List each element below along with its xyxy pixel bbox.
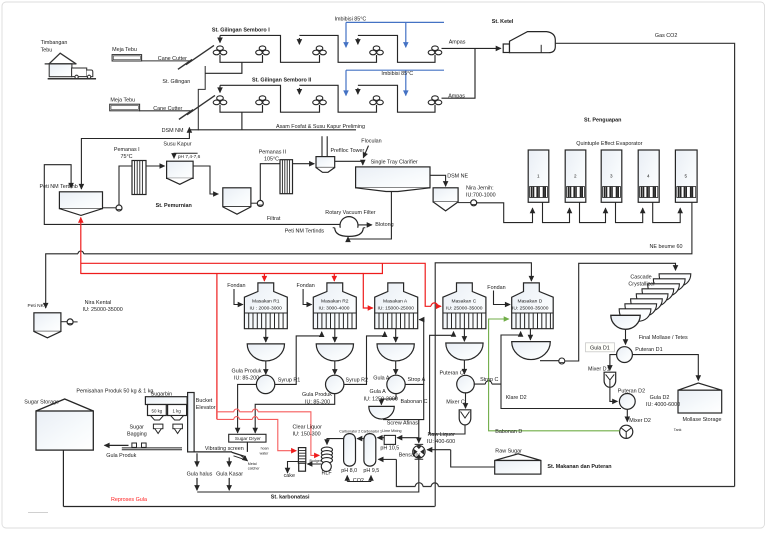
wire raw sugar to bensator xyxy=(427,450,495,467)
svg-text:Mollase Storage: Mollase Storage xyxy=(683,417,722,423)
vessel Preflloc Tower xyxy=(316,136,369,172)
svg-text:Sugarbin: Sugarbin xyxy=(151,391,173,397)
wire CO2 sparge xyxy=(347,476,371,482)
svg-text:Bucket: Bucket xyxy=(196,398,213,404)
mixer D2 icon xyxy=(620,425,633,438)
wire bagasse drop 2 train II xyxy=(357,88,359,94)
svg-text:Reproses Gula: Reproses Gula xyxy=(111,497,147,503)
svg-text:Gula Kasar: Gula Kasar xyxy=(216,472,243,478)
wire puteran D1 to mixer D1 xyxy=(610,355,617,371)
wire ampas train I to boiler xyxy=(442,47,501,49)
svg-text:3: 3 xyxy=(610,174,613,179)
evaporator 2 xyxy=(565,150,586,202)
svg-text:Masakan D: Masakan D xyxy=(518,298,543,304)
mill 2 train II xyxy=(256,96,270,105)
svg-text:RLF: RLF xyxy=(322,470,333,476)
svg-text:Klare D2: Klare D2 xyxy=(506,395,527,401)
svg-text:Susu Kapur: Susu Kapur xyxy=(163,142,191,148)
wire screw afinasi to bensator xyxy=(383,420,419,443)
tank pH defecation xyxy=(166,153,218,194)
svg-text:pH 8,0: pH 8,0 xyxy=(341,468,357,474)
svg-text:Peti NK: Peti NK xyxy=(28,303,45,309)
wire klare D2 and strop C up into masakan D xyxy=(501,332,621,409)
svg-text:75°C: 75°C xyxy=(121,154,133,160)
wire red feed to masakan C xyxy=(81,263,441,306)
puteran R1 xyxy=(256,375,274,393)
svg-text:catcher: catcher xyxy=(248,467,261,471)
wire bensator to lime mixing xyxy=(397,437,419,439)
svg-text:Puteran D2: Puteran D2 xyxy=(618,389,645,395)
wire clarifier to DSM NE xyxy=(430,175,446,186)
pump bensator xyxy=(413,444,425,459)
pump receiver D xyxy=(559,358,565,364)
svg-text:IU: 400-600: IU: 400-600 xyxy=(427,439,455,445)
svg-text:Tebu: Tebu xyxy=(41,47,53,53)
wire evap 3 to 4 xyxy=(616,202,643,222)
svg-text:4: 4 xyxy=(647,174,650,179)
svg-text:St. Penguapan: St. Penguapan xyxy=(584,117,621,123)
svg-text:Babonan C: Babonan C xyxy=(401,399,428,405)
wire filtrat return loop xyxy=(44,165,340,225)
wire pH tank to settler xyxy=(193,166,218,194)
funnel icon 2 xyxy=(173,424,183,433)
footer mark xyxy=(28,512,48,514)
box Gula D1 xyxy=(586,343,615,352)
svg-text:St. Gilingan Semboro II: St. Gilingan Semboro II xyxy=(252,77,312,83)
evaporator 4 xyxy=(638,150,659,202)
svg-text:St. Ketel: St. Ketel xyxy=(492,19,514,25)
svg-text:Single Tray Clarifier: Single Tray Clarifier xyxy=(371,159,418,165)
svg-text:Clear Liquor: Clear Liquor xyxy=(293,424,323,430)
svg-text:Lime Mixing: Lime Mixing xyxy=(382,429,401,433)
wire red riser from clear liquor xyxy=(216,274,218,420)
vessel Masakan A xyxy=(375,283,418,329)
vessel Masakan D xyxy=(512,283,554,329)
wire bagasse rail 1 train I xyxy=(220,35,320,62)
wire floculan arrow xyxy=(363,146,368,158)
svg-text:Masakan C: Masakan C xyxy=(452,298,477,304)
bucket elevator xyxy=(188,393,195,452)
svg-text:Gula Produk: Gula Produk xyxy=(302,392,332,398)
receiver C xyxy=(446,343,483,360)
wires syrup / strop / gula xyxy=(234,263,676,507)
pump nira jernih xyxy=(471,200,477,206)
svg-text:Carbonator 2: Carbonator 2 xyxy=(339,430,360,434)
svg-text:St. karbonatasi: St. karbonatasi xyxy=(271,494,310,500)
svg-text:IU: 25000-35000: IU: 25000-35000 xyxy=(512,306,549,312)
svg-text:Pemanas II: Pemanas II xyxy=(259,149,286,155)
vessel Masakan R1 xyxy=(244,283,287,329)
svg-text:Puteran C: Puteran C xyxy=(440,371,464,377)
wire bagasse drop train II xyxy=(298,88,300,94)
svg-text:Gula Produk: Gula Produk xyxy=(106,453,136,459)
wire puteran D1 to molase storage xyxy=(632,355,698,381)
pump peti NM tertimb xyxy=(103,207,117,209)
wire bagasse rail 3 train II xyxy=(358,85,435,112)
svg-text:Elevator: Elevator xyxy=(196,405,216,411)
wire DSM NM juice down to peti NM tertimb xyxy=(81,130,189,189)
mill 5 train II xyxy=(428,96,442,105)
svg-text:Preflloc Tower: Preflloc Tower xyxy=(331,148,365,154)
wire juice drain train II xyxy=(241,112,243,130)
wire meja tebu I to cutter xyxy=(142,60,189,62)
vibrating screen xyxy=(232,452,246,457)
tank Peti NM Tertimb xyxy=(59,192,122,216)
mill 1 train I xyxy=(213,46,227,55)
svg-text:pH 10,5: pH 10,5 xyxy=(380,445,399,451)
silo Sugar Storage xyxy=(36,399,93,411)
wire receiver D to cascade crystallizer xyxy=(540,360,559,362)
wire blotong out xyxy=(358,224,372,226)
mill 4 train I xyxy=(370,46,384,55)
tank Molase Storage xyxy=(678,383,722,413)
svg-text:pH 7,4-7,6: pH 7,4-7,6 xyxy=(178,154,201,160)
svg-text:1: 1 xyxy=(537,174,540,179)
svg-text:Cane Cutter: Cane Cutter xyxy=(158,56,187,62)
wire bagasse drop 2 train I xyxy=(357,38,359,44)
bin 50 kg xyxy=(148,405,167,416)
svg-text:St. Makanan dan Puteran: St. Makanan dan Puteran xyxy=(547,464,611,470)
wire reproses gula up to peti NM tertimb xyxy=(80,218,82,274)
box pH 7,4-7,6 xyxy=(174,153,198,158)
wire ampas train II xyxy=(442,48,476,98)
wire clarifier mud to filter xyxy=(348,192,391,240)
box Sugar Dryer xyxy=(229,434,266,442)
svg-text:Gula D2: Gula D2 xyxy=(650,395,670,401)
wire receiver R1 to puteran xyxy=(265,361,267,374)
wire receiver A to puteran xyxy=(395,361,397,374)
svg-text:IU: 1250-2000: IU: 1250-2000 xyxy=(364,396,398,402)
svg-text:Meja Tebu: Meja Tebu xyxy=(110,98,135,104)
svg-text:Bagging: Bagging xyxy=(127,431,147,437)
svg-text:Quintuple Effect Evaporator: Quintuple Effect Evaporator xyxy=(576,141,642,147)
svg-text:Nira Jernih:: Nira Jernih: xyxy=(466,185,494,191)
svg-text:IU: 4000-6000: IU: 4000-6000 xyxy=(646,402,680,408)
wire dryer to elevator xyxy=(246,442,248,452)
wire carbonator 2 to RLF xyxy=(327,439,344,445)
svg-text:Gas CO2: Gas CO2 xyxy=(655,33,677,39)
svg-text:IU: 25000-35000: IU: 25000-35000 xyxy=(83,307,123,313)
wire C to receiver xyxy=(463,329,465,342)
svg-text:Pemanas I: Pemanas I xyxy=(114,147,140,153)
svg-text:Bensator: Bensator xyxy=(399,452,421,458)
svg-text:Fondan: Fondan xyxy=(487,285,505,291)
svg-text:Pemisahan Produk 50 kg & 1 kg: Pemisahan Produk 50 kg & 1 kg xyxy=(76,388,153,394)
svg-text:Crystallizer: Crystallizer xyxy=(628,282,655,288)
imbibisi blue lines train I xyxy=(346,22,444,95)
wire puteran D2 to mixer D2 xyxy=(626,409,628,421)
svg-text:water: water xyxy=(260,451,270,455)
svg-text:Sugar Dryer: Sugar Dryer xyxy=(235,436,261,442)
svg-text:CO2: CO2 xyxy=(353,478,364,484)
wire babonan C return to masakan C xyxy=(430,332,465,434)
wire meja tebu II to cutter xyxy=(140,110,190,112)
wire red clear liquor to RLF xyxy=(217,412,319,456)
wire evap 1 to 2 xyxy=(543,202,570,222)
wire preliming header to DSM NM xyxy=(189,129,356,131)
svg-text:Mixer C: Mixer C xyxy=(446,400,465,406)
svg-text:Imbibisi 85°C: Imbibisi 85°C xyxy=(381,71,413,77)
conveyor sugar bagging xyxy=(122,448,182,450)
svg-text:IU : 2000-3000: IU : 2000-3000 xyxy=(250,306,283,312)
crystallizer bottom dome xyxy=(611,315,640,329)
wire arrow into mill 1 train I xyxy=(219,35,221,42)
svg-text:Mixer D2: Mixer D2 xyxy=(629,418,651,424)
wire syrup R1 to masakan R2 xyxy=(275,332,322,385)
svg-text:Strop C: Strop C xyxy=(480,377,498,383)
wire A to receiver xyxy=(395,329,397,342)
svg-text:Timbangan: Timbangan xyxy=(41,40,68,46)
svg-text:Mixer D1: Mixer D1 xyxy=(588,367,610,373)
receiver D xyxy=(512,342,551,360)
wire bagasse drop train I xyxy=(298,38,300,44)
wire bottom reproses line xyxy=(63,506,434,508)
mills train I xyxy=(213,46,442,105)
meja tebu I (table) xyxy=(112,55,142,61)
wire red header to masakan A xyxy=(363,263,382,308)
mill 2 train I xyxy=(256,46,270,55)
tank Peti NK xyxy=(34,313,61,332)
wire juice drain train I xyxy=(205,62,242,73)
svg-text:50 kg: 50 kg xyxy=(152,408,163,413)
wire bagasse rail 1 train II xyxy=(220,85,320,112)
svg-text:Fondan: Fondan xyxy=(297,283,315,289)
wire elevator to vibrating screen xyxy=(194,451,232,453)
svg-text:Gula Produk: Gula Produk xyxy=(232,369,262,375)
svg-text:IU: 3000-4000: IU: 3000-4000 xyxy=(319,306,350,312)
svg-text:Rotary Vacuum Filter: Rotary Vacuum Filter xyxy=(325,210,375,216)
wire mixer D1 to puteran D2 xyxy=(610,388,617,402)
wire silo to bottom reproses line xyxy=(62,450,64,506)
svg-text:Gula A: Gula A xyxy=(373,376,390,382)
mill 1 train II xyxy=(213,96,227,105)
wire receiver C to puteran xyxy=(463,360,465,374)
svg-text:Syrup R1: Syrup R1 xyxy=(278,377,300,383)
svg-text:Peti NM Tertinds: Peti NM Tertinds xyxy=(285,228,325,234)
tank settler (pemanas II feed) xyxy=(223,188,263,214)
wire arrow into mill 1 train II xyxy=(219,85,221,92)
wire strop A return to masakan A xyxy=(405,320,424,385)
svg-text:Imbibisi 85°C: Imbibisi 85°C xyxy=(335,16,367,22)
wire red drop masakan R2 xyxy=(333,274,335,282)
mill 4 train II xyxy=(370,96,384,105)
svg-text:Raw Liquor: Raw Liquor xyxy=(428,432,455,438)
svg-text:DSM NM: DSM NM xyxy=(162,128,184,134)
wire dome to puteran D1 xyxy=(625,329,627,344)
svg-text:Puteran D1: Puteran D1 xyxy=(635,347,662,353)
svg-text:Vibrating screen: Vibrating screen xyxy=(205,446,244,452)
svg-text:105°C: 105°C xyxy=(264,157,279,163)
centrifugals (puteran circles) xyxy=(256,375,474,393)
wire gas CO2 from boiler to right edge and down xyxy=(555,43,734,486)
wire D to receiver xyxy=(529,329,531,340)
heater Pemanas II xyxy=(260,160,314,201)
wire bagasse rail 2 train I xyxy=(299,35,376,62)
wire syrup R2 to masakan A xyxy=(344,332,385,385)
evaporator 1 xyxy=(528,150,549,202)
svg-text:IU: 85-200: IU: 85-200 xyxy=(234,375,259,381)
puteran D2 xyxy=(619,394,635,410)
wire gula A to screw afinasi xyxy=(381,394,396,405)
svg-text:Babonan D: Babonan D xyxy=(495,429,522,435)
mixer C icon xyxy=(459,410,471,425)
mill 5 train I xyxy=(428,46,442,55)
house Timbangan Tebu xyxy=(45,53,95,78)
wire transfer cane to mill train II xyxy=(198,67,205,130)
svg-text:Sugar: Sugar xyxy=(130,424,145,430)
wire gula produk R1 to dryer xyxy=(238,384,257,432)
svg-text:IU:700-1000: IU:700-1000 xyxy=(466,193,496,199)
vessel Masakan R2 xyxy=(313,283,356,329)
wire mill1-mill2 channel train II xyxy=(220,105,263,112)
evaporator 3 xyxy=(601,150,622,202)
wires masakan to receivers xyxy=(266,329,531,375)
svg-text:St. Gilingan Semboro I: St. Gilingan Semboro I xyxy=(212,28,270,34)
wire evap 4 to 5 xyxy=(653,202,681,222)
svg-text:Peti NM Tertimb: Peti NM Tertimb xyxy=(40,184,78,190)
svg-text:Screw Afinasi: Screw Afinasi xyxy=(387,420,419,426)
pump settler xyxy=(257,200,263,206)
svg-text:St. Pemurnian: St. Pemurnian xyxy=(156,203,192,209)
svg-text:Ampas: Ampas xyxy=(448,94,465,100)
wire carbonator 1 to carbonator 2 xyxy=(357,438,364,440)
svg-text:Blotong: Blotong xyxy=(375,222,393,228)
wire red clear liquor to cake filter xyxy=(217,419,296,450)
wire R2 to receiver xyxy=(334,329,336,342)
svg-text:St. Gilingan: St. Gilingan xyxy=(162,79,190,85)
carbonator 1 xyxy=(364,434,376,467)
svg-text:2: 2 xyxy=(574,174,577,179)
svg-text:Gula halus: Gula halus xyxy=(187,472,213,478)
svg-text:Cane Cutter: Cane Cutter xyxy=(153,106,182,112)
svg-text:Asam Fosfat & Susu Kapur Preli: Asam Fosfat & Susu Kapur Preliming xyxy=(276,124,365,130)
imbibisi blue lines train II xyxy=(346,69,444,71)
wire red header left leg xyxy=(81,273,364,275)
svg-text:Floculan: Floculan xyxy=(361,139,381,145)
meja tebu II (table) xyxy=(110,104,140,111)
svg-text:Budger: Budger xyxy=(310,459,322,463)
svg-text:hoan: hoan xyxy=(261,446,269,450)
wire strop C to klare column xyxy=(474,383,501,385)
wire fondan R1 xyxy=(234,289,243,305)
cane cutter II blade xyxy=(188,96,215,115)
box lime mixing xyxy=(384,435,395,444)
wire fondan R2 xyxy=(303,289,312,305)
svg-text:Cascade: Cascade xyxy=(630,274,651,280)
svg-text:Carbonator 1: Carbonator 1 xyxy=(361,430,382,434)
wire puteran C to mixer C xyxy=(465,392,467,408)
receiver R2 xyxy=(316,344,353,361)
svg-text:Ampas: Ampas xyxy=(449,40,466,46)
cane cutter I blade xyxy=(187,46,214,65)
clarifier Single Tray Clarifier xyxy=(348,167,446,239)
svg-text:Meja Tebu: Meja Tebu xyxy=(112,47,137,53)
evaporator vessels 1-5 xyxy=(528,150,697,202)
crystallizer trays xyxy=(659,274,691,287)
svg-text:Fondan: Fondan xyxy=(227,283,245,289)
svg-text:Masakan A: Masakan A xyxy=(383,298,408,304)
strike receivers (half domes) xyxy=(247,342,550,361)
svg-text:Syrup R2: Syrup R2 xyxy=(346,377,368,383)
wire metal catcher xyxy=(241,455,248,461)
truck xyxy=(72,68,87,77)
wire babonan D (green) xyxy=(489,319,620,431)
evaporator 5 xyxy=(675,150,697,202)
tank Raw Sugar xyxy=(495,454,541,474)
boiler St. Ketel xyxy=(503,32,555,53)
svg-text:IU: 15000-25000: IU: 15000-25000 xyxy=(378,306,415,312)
wire filter to cake xyxy=(288,462,299,473)
wire gula kasar drop xyxy=(228,458,230,467)
wire red drop masakan R1 xyxy=(263,274,265,282)
puteran C xyxy=(457,375,475,393)
puteran R2 xyxy=(326,375,344,393)
filter cake stack xyxy=(298,448,305,472)
svg-text:IU: 150-300: IU: 150-300 xyxy=(293,432,321,438)
svg-text:IU: 85-200: IU: 85-200 xyxy=(305,399,330,405)
wire gula halus drop xyxy=(196,453,198,466)
svg-text:Gula D1: Gula D1 xyxy=(590,346,610,352)
filter Rotary Vacuum Filter xyxy=(333,217,372,237)
heater Pemanas I xyxy=(119,161,165,206)
pump nira mentah xyxy=(116,205,122,211)
svg-text:1 kg: 1 kg xyxy=(173,408,182,413)
svg-text:Nira Kental: Nira Kental xyxy=(85,300,112,306)
bin Sugarbin header xyxy=(145,397,187,405)
receiver R1 xyxy=(247,344,284,361)
wire bensator to st karbonatasi line xyxy=(197,458,419,492)
svg-text:Masakan R1: Masakan R1 xyxy=(252,298,280,304)
wire bagasse rail 3 train I xyxy=(358,35,435,62)
svg-text:DSM NE: DSM NE xyxy=(447,173,468,179)
vessel Masakan C xyxy=(443,283,486,329)
wire gula produk to storage xyxy=(105,444,129,446)
svg-text:5: 5 xyxy=(685,174,688,179)
svg-text:IU: 25000-35000: IU: 25000-35000 xyxy=(446,306,483,312)
wire NE beume 60 to Peti NK xyxy=(46,202,692,308)
wire fondan D xyxy=(494,291,511,305)
svg-text:Final Mollase / Tetes: Final Mollase / Tetes xyxy=(639,335,688,341)
svg-text:Sugar Storage: Sugar Storage xyxy=(24,399,59,405)
svg-text:Raw Sugar: Raw Sugar xyxy=(495,449,522,455)
svg-text:Metal: Metal xyxy=(248,462,257,466)
wire nira jernih to evaporator 1 xyxy=(477,203,533,223)
mixer D1 icon xyxy=(604,372,616,387)
carbonator 2 xyxy=(344,434,356,467)
funnel icon 1 xyxy=(153,424,163,433)
wire CO2 main line to carbonator 1 xyxy=(378,458,396,460)
wire raw liquor riser to masakan D neck xyxy=(435,263,531,507)
svg-text:Tank: Tank xyxy=(674,428,682,432)
wire RLF to filter (budger) xyxy=(307,463,321,465)
wire gula produk R2 to dryer xyxy=(255,394,335,433)
mill 3 train II xyxy=(313,96,327,105)
receiver A xyxy=(377,344,414,361)
tank DSM NE receiver xyxy=(433,188,477,211)
pump nira kental xyxy=(67,319,73,325)
svg-text:cake: cake xyxy=(284,473,295,479)
svg-text:Strop A: Strop A xyxy=(408,377,426,383)
wire lime mixing to carbonator 1 xyxy=(378,437,385,439)
svg-text:pH 9,5: pH 9,5 xyxy=(363,468,379,474)
wire strop A down to raw liquor xyxy=(419,384,424,419)
bin 1 kg xyxy=(168,405,187,416)
screw afinasi dome xyxy=(369,406,395,419)
wire R1 to receiver xyxy=(265,329,267,342)
svg-text:Filtrat: Filtrat xyxy=(267,216,281,222)
svg-text:Gula A: Gula A xyxy=(370,389,387,395)
puteran A xyxy=(387,375,405,393)
